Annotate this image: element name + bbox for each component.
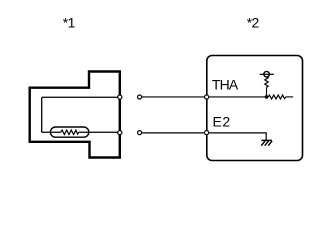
pull-up resistor R1 vertical zigzag <box>265 77 268 87</box>
power supply node circle <box>264 71 270 77</box>
ground tick 1 <box>261 141 265 146</box>
wire THA harness <box>142 96 205 98</box>
harness terminal circle (bottom) <box>138 131 142 135</box>
wire: sensor loop bottom right segment <box>79 131 120 133</box>
ECU terminal circle THA <box>205 95 209 99</box>
ground tick 3 <box>268 141 272 146</box>
wire E2 harness <box>142 132 205 134</box>
wire: junction to pull-up resistor <box>266 87 268 97</box>
wire: THA net inside ECU <box>209 96 267 98</box>
wire: sensor loop left <box>41 97 43 132</box>
series resistor R2 horizontal zigzag <box>268 95 286 99</box>
connector housing (temperature sensor side) <box>30 72 120 158</box>
sensor terminal pin circle (bottom) <box>118 131 122 135</box>
wire: resistor tail <box>286 96 293 98</box>
power supply bar <box>260 73 274 75</box>
sensor terminal pin circle (top) <box>118 95 122 99</box>
thermistor element oval <box>50 127 88 137</box>
junction dot <box>265 95 269 99</box>
ECU box <box>207 56 303 161</box>
wire: E2 net inside ECU <box>209 133 267 140</box>
ECU terminal circle E2 <box>205 131 209 135</box>
svg-text:*2: *2 <box>247 15 260 31</box>
thermistor zigzag <box>61 130 79 134</box>
ground bar <box>261 139 272 141</box>
svg-text:E2: E2 <box>213 113 231 129</box>
wire: sensor loop bottom left segment <box>42 131 61 133</box>
ground tick 2 <box>265 141 269 146</box>
svg-text:*1: *1 <box>63 15 76 31</box>
harness terminal circle (top) <box>138 95 142 99</box>
svg-text:THA: THA <box>212 76 239 92</box>
wire: sensor loop top <box>42 96 120 98</box>
